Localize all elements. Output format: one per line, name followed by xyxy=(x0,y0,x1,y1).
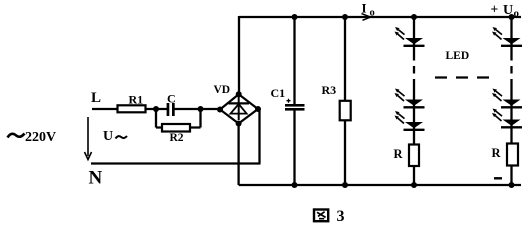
svg-text:o: o xyxy=(514,8,520,20)
svg-text:R3: R3 xyxy=(322,83,337,97)
svg-text:R: R xyxy=(394,147,404,161)
svg-text:U: U xyxy=(503,3,513,18)
svg-text:C: C xyxy=(167,92,176,106)
svg-text:N: N xyxy=(89,168,103,189)
svg-text:o: o xyxy=(370,8,375,19)
svg-text:220V: 220V xyxy=(25,130,56,145)
svg-text:I: I xyxy=(362,1,367,16)
svg-text:L: L xyxy=(91,90,101,106)
svg-text:U: U xyxy=(103,129,113,144)
svg-text:R: R xyxy=(492,146,502,160)
svg-text:VD: VD xyxy=(214,84,231,96)
svg-text:R1: R1 xyxy=(129,93,144,107)
svg-text:R2: R2 xyxy=(170,132,184,144)
svg-text:3: 3 xyxy=(337,208,345,225)
svg-text:C1: C1 xyxy=(271,86,286,100)
svg-text:LED: LED xyxy=(446,50,470,62)
svg-text:+: + xyxy=(491,2,499,17)
